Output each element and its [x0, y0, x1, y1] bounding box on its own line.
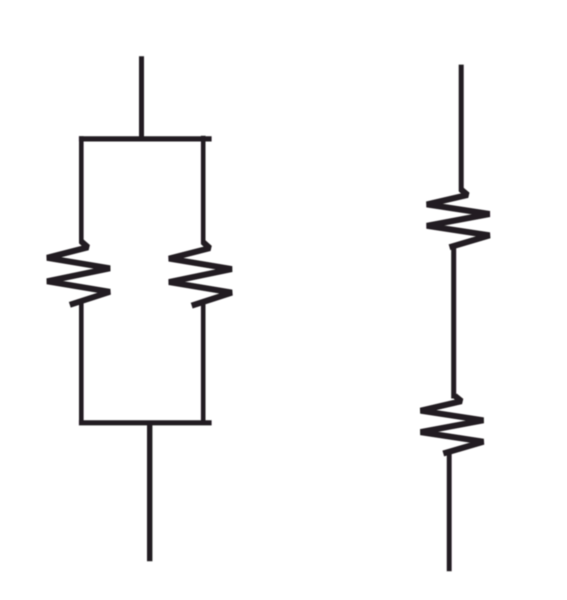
wire: left branch upper segment [79, 136, 84, 243]
wire: right circuit top lead [459, 65, 464, 192]
wire: left branch lower segment [79, 304, 84, 426]
wire: left circuit bottom lead [147, 423, 152, 561]
wire: right circuit middle segment [451, 246, 456, 399]
wire: right branch upper segment [201, 136, 206, 245]
resistor R3 (series, upper) [427, 190, 490, 248]
resistor R1 (left parallel branch) [47, 242, 110, 305]
resistor R4 (series, lower) [421, 396, 484, 454]
wire: left circuit bottom bar [79, 420, 212, 425]
resistor R2 (right parallel branch) [169, 242, 232, 305]
wire: right branch lower segment [201, 304, 206, 425]
wire: left circuit top lead [139, 56, 144, 141]
wire: right circuit bottom lead [447, 453, 452, 572]
wire: left circuit top bar [79, 136, 212, 141]
